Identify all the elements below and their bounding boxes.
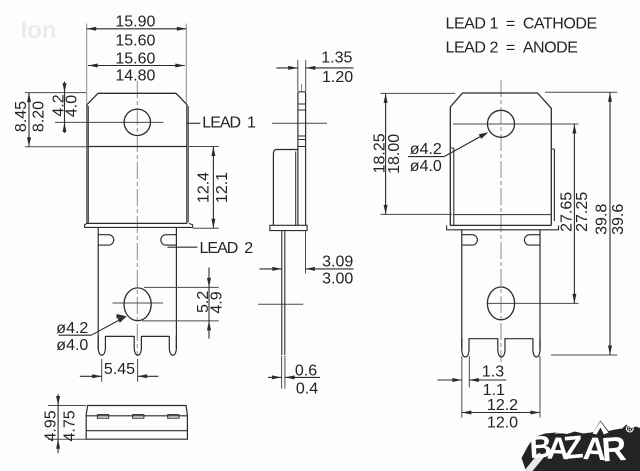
dimension 39.8/39.6 overall	[545, 91, 617, 93]
dimension 1.35/1.20 strip width	[297, 60, 299, 91]
node left-view vertical centerline	[136, 81, 138, 356]
node body bottom	[87, 222, 187, 224]
node leader LEAD 2	[168, 246, 198, 248]
dimension 8.45/8.20 left	[25, 92, 86, 94]
svg-text:1.3: 1.3	[482, 363, 504, 380]
svg-text:R: R	[600, 430, 627, 470]
diagram left-view tab outline	[87, 93, 187, 223]
node right prong tips	[462, 338, 469, 357]
node right blade hook right	[524, 235, 539, 245]
node right view body bottom	[450, 224, 551, 226]
svg-text:ø4.2: ø4.2	[56, 320, 88, 337]
node blade hook slot left	[99, 235, 114, 245]
svg-text:1.20: 1.20	[322, 69, 353, 86]
svg-text:18.00: 18.00	[386, 134, 403, 174]
node middle view vertical centerline	[301, 84, 303, 91]
svg-text:R: R	[628, 427, 632, 433]
svg-text:8.45: 8.45	[13, 101, 30, 132]
svg-text:12.4: 12.4	[196, 172, 213, 203]
node leader LEAD 1	[187, 122, 201, 124]
svg-text:15.90: 15.90	[115, 13, 155, 30]
node right view body edges	[453, 148, 455, 225]
node blade terminal left view	[97, 227, 99, 349]
node mounting hole right view	[488, 110, 515, 137]
node right blade end line	[469, 338, 498, 340]
svg-text:4.95: 4.95	[42, 410, 59, 441]
node prong tips left view	[98, 336, 105, 355]
node right view hole centerline	[453, 123, 579, 125]
node bottom flange left view	[85, 223, 193, 227]
node right blade hook left	[462, 235, 477, 245]
node middle view bottom hole centerline	[258, 303, 303, 305]
svg-text:8.20: 8.20	[30, 101, 47, 132]
svg-text:15.60: 15.60	[115, 32, 155, 49]
dimension 4.95/4.75 thickness (bottom view)	[48, 405, 86, 407]
node section line tab/body	[87, 146, 187, 148]
svg-text:39.8: 39.8	[594, 204, 611, 235]
svg-text:LEAD 1: LEAD 1	[202, 115, 256, 132]
dimension 15.90/15.60 top	[86, 24, 88, 104]
svg-text:0.4: 0.4	[296, 381, 318, 398]
diagram middle view body	[273, 150, 298, 226]
svg-text:LEAD 2: LEAD 2	[200, 240, 254, 257]
node blade end line	[105, 335, 134, 337]
svg-text:ø4.0: ø4.0	[56, 337, 88, 354]
svg-text:12.0: 12.0	[487, 414, 518, 431]
node left-view bottom hole centerline	[113, 302, 164, 304]
svg-text:12.1: 12.1	[214, 172, 231, 203]
node lead slots bottom view	[97, 415, 108, 419]
diagram bottom view package	[86, 406, 187, 440]
dimension 3.09/3.00 lead offset	[305, 231, 307, 274]
svg-text:5.45: 5.45	[104, 361, 135, 378]
node blade hole (oval) left view	[124, 288, 151, 321]
dimension 5.45 prong pitch	[101, 359, 103, 382]
node middle flange	[270, 225, 307, 230]
svg-text:ø4.2: ø4.2	[410, 141, 442, 158]
svg-text:LEAD 1 = CATHODE: LEAD 1 = CATHODE	[446, 16, 597, 33]
svg-text:ø4.0: ø4.0	[410, 158, 442, 175]
dimension 12.4/12.1 body height	[188, 146, 219, 148]
dimension 5.2/4.9 oval height	[144, 286, 219, 288]
svg-text:27.25: 27.25	[574, 192, 591, 232]
diagram right view tab outline	[450, 93, 551, 225]
svg-text:4.0: 4.0	[64, 95, 81, 117]
dimension 12.2/12.0 blade width	[539, 356, 541, 418]
svg-text:LEAD 2 = ANODE: LEAD 2 = ANODE	[446, 39, 578, 56]
dimension 27.65/27.25	[573, 124, 575, 303]
node BAZAR watermark banner	[522, 421, 640, 471]
node middle blade lead	[281, 231, 283, 356]
node mounting hole left view	[124, 109, 150, 135]
node strip tick marks	[298, 103, 306, 105]
svg-text:Z: Z	[562, 428, 584, 466]
node right view flange	[447, 225, 559, 229]
node right view blade	[461, 230, 463, 349]
svg-text:1.35: 1.35	[321, 50, 352, 67]
dimension 1.3/1.1 prong width	[461, 356, 463, 418]
node right blade hole (oval)	[487, 287, 514, 320]
node right view bottom hole centerline	[488, 302, 579, 304]
svg-text:14.80: 14.80	[115, 67, 155, 84]
dimension 0.6/0.4 lead thickness	[281, 356, 283, 389]
svg-text:15.60: 15.60	[115, 51, 155, 68]
dimension 15.60/14.80	[88, 65, 185, 67]
svg-text:39.6: 39.6	[610, 204, 627, 235]
node middle view hole centerline	[272, 122, 327, 124]
dimension 4.2/4.0 hole offset	[64, 82, 66, 134]
svg-text:0.6: 0.6	[295, 362, 317, 379]
svg-text:4.9: 4.9	[209, 291, 226, 313]
svg-text:Ion: Ion	[21, 17, 57, 44]
diagram middle view tab strip	[298, 92, 306, 226]
svg-text:3.00: 3.00	[322, 271, 353, 288]
node left-view hole horizontal centerline	[55, 121, 164, 123]
dimension 18.25/18.00	[381, 92, 456, 94]
svg-text:12.2: 12.2	[487, 397, 518, 414]
node right view vertical centerline	[500, 80, 502, 362]
svg-text:3.09: 3.09	[322, 253, 353, 270]
node blade hook slot right	[161, 235, 176, 245]
node right view inner line	[454, 214, 552, 216]
svg-text:4.75: 4.75	[62, 410, 79, 441]
